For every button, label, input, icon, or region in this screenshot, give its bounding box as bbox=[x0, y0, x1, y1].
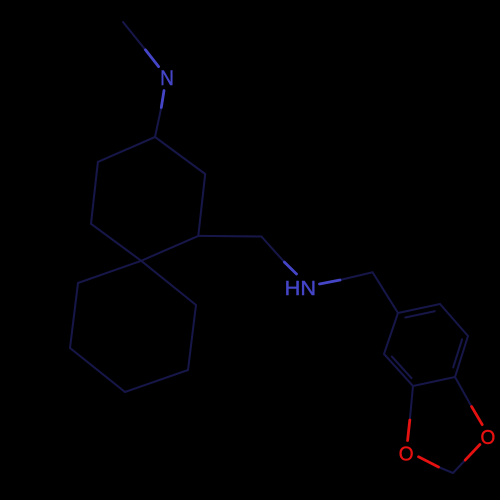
wire ring2 bond D4-D5 bbox=[70, 348, 125, 392]
wire ring bond C6-C1 bbox=[155, 137, 205, 174]
wire benzo ring bond E-F bbox=[440, 304, 468, 336]
wire bond A to O2 (carbon half) bbox=[455, 377, 472, 407]
wire ring bond C2-C3 bbox=[91, 162, 98, 224]
wire red half bond O1-CH2 bbox=[419, 457, 439, 467]
wire benzo ring bond D-E bbox=[398, 304, 440, 313]
wire aromatic inner line D-E bbox=[405, 311, 434, 317]
wire benzo ring bond B-C bbox=[384, 354, 413, 386]
wire bond CH3a to N1 (carbon half) bbox=[123, 22, 145, 50]
wire ring bond C4-C5 bbox=[141, 236, 198, 261]
wire ring2 bond D6-C4 bbox=[78, 261, 141, 283]
wire bond C8 to ring D bbox=[373, 272, 398, 313]
svg-text:O: O bbox=[399, 444, 414, 466]
wire bond B to O1 (carbon half) bbox=[410, 386, 413, 420]
wire ring2 bond D5-D6 bbox=[70, 283, 78, 348]
svg-text:O: O bbox=[481, 427, 496, 449]
wire ring bond C1-C2 bbox=[98, 137, 155, 162]
wire benzo ring bond A-B bbox=[413, 377, 455, 386]
wire benzo ring bond C-D bbox=[384, 313, 398, 354]
wire blue half bond N2-C8 bbox=[320, 280, 341, 284]
wire bond C7 to N2 (carbon half) bbox=[261, 237, 284, 263]
wire aromatic inner line F-A bbox=[453, 339, 462, 367]
wire bond CH2 to O2 (carbon half) bbox=[453, 460, 465, 473]
wire bond N2 to C8 (carbon half) bbox=[340, 272, 373, 280]
wire red half bond O2-CH2 bbox=[465, 445, 480, 461]
wire bond O1 to CH2 (carbon half) bbox=[439, 467, 454, 473]
wire ring bond C5-C6 bbox=[198, 174, 205, 236]
wire ring2 bond D2-D3 bbox=[188, 305, 196, 370]
wire ring2 bond C4-D2 bbox=[141, 261, 196, 305]
wire blue half bond N1-C1 bbox=[161, 91, 164, 108]
wire bond N1 to C1 (carbon half) bbox=[155, 108, 161, 138]
svg-text:HN: HN bbox=[285, 278, 316, 300]
wire ring bond C3-C4 bbox=[91, 224, 141, 261]
wire bond C5-C7 bbox=[198, 235, 261, 238]
wire ring2 bond D3-D4 bbox=[125, 370, 188, 392]
wire benzo ring bond F-A bbox=[455, 336, 468, 377]
wire red half bond A-O2 bbox=[472, 407, 483, 425]
wire red half bond B-O1 bbox=[408, 420, 410, 441]
wire blue half bond CH3a-N1 bbox=[145, 50, 158, 67]
wire aromatic inner line B-C bbox=[392, 357, 412, 379]
svg-text:N: N bbox=[160, 66, 174, 90]
wire blue half bond C7-N2 bbox=[284, 262, 296, 274]
